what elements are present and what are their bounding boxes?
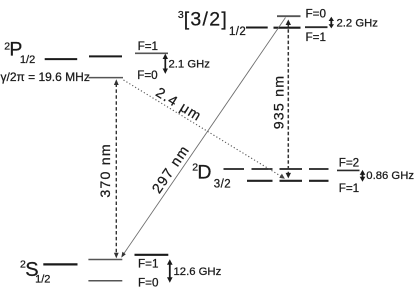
level P1/2 F=0 line [89,77,124,79]
svg-text:F=1: F=1 [339,182,359,195]
wire 297 nm transition [121,18,285,258]
level S centroid segment [43,263,77,265]
arrow 2.1 GHz splitting [163,54,168,74]
level S middle segment [88,259,122,261]
level S F=1 line [135,254,169,256]
svg-text:F=0: F=0 [138,277,159,290]
wire 370 nm dashed transition [114,79,119,258]
level P1/2 middle segment [89,55,122,57]
level P1/2 F=1 line [135,52,168,54]
arrow 12.6 GHz splitting [167,259,173,282]
label 2D3/2 term [192,161,231,190]
level bracket F=1 line [274,27,301,29]
svg-text:F=0: F=0 [137,69,158,82]
svg-text:1/2: 1/2 [20,54,35,66]
svg-text:0.86 GHz: 0.86 GHz [366,170,414,182]
level bracket F=0 line [277,15,301,17]
level D F=2 right segment [337,169,360,171]
svg-text:1/2: 1/2 [35,274,50,286]
svg-text:12.6 GHz: 12.6 GHz [174,266,222,278]
svg-text:[3/2]: [3/2] [184,9,228,31]
wire 2.4 um dotted transition [124,80,285,179]
svg-text:F=0: F=0 [306,8,327,21]
svg-text:3/2: 3/2 [214,179,231,191]
level bracket F=1 right segment [305,26,328,28]
svg-text:F=2: F=2 [339,157,359,170]
level bracket centroid segment [246,27,268,29]
svg-text:γ/2π = 19.6 MHz: γ/2π = 19.6 MHz [1,70,90,84]
svg-text:F=1: F=1 [306,31,326,44]
label 2P1/2 term [4,39,35,66]
level D F=1 dashed row [247,180,329,182]
arrow 2.2 GHz splitting [329,17,334,29]
svg-text:2.2 GHz: 2.2 GHz [337,17,379,29]
label 2S1/2 term [20,258,50,285]
level S F=0 segment [88,280,122,282]
label 3[3/2]1/2 term [178,9,246,39]
level D F=2 dashed row [224,168,329,170]
wire 935 nm dashed transition [286,20,291,179]
arrow 0.86 GHz splitting [360,170,366,182]
level P1/2 centroid segment [45,58,77,60]
svg-text:935 nm: 935 nm [272,75,288,130]
svg-text:F=1: F=1 [138,257,158,270]
svg-text:297 nm: 297 nm [149,143,193,197]
svg-text:370 nm: 370 nm [98,143,114,198]
svg-text:D: D [197,162,211,184]
svg-text:1/2: 1/2 [229,26,246,38]
svg-text:F=1: F=1 [138,40,158,53]
svg-text:2.4 μm: 2.4 μm [153,85,205,125]
svg-text:2.1 GHz: 2.1 GHz [169,59,211,71]
